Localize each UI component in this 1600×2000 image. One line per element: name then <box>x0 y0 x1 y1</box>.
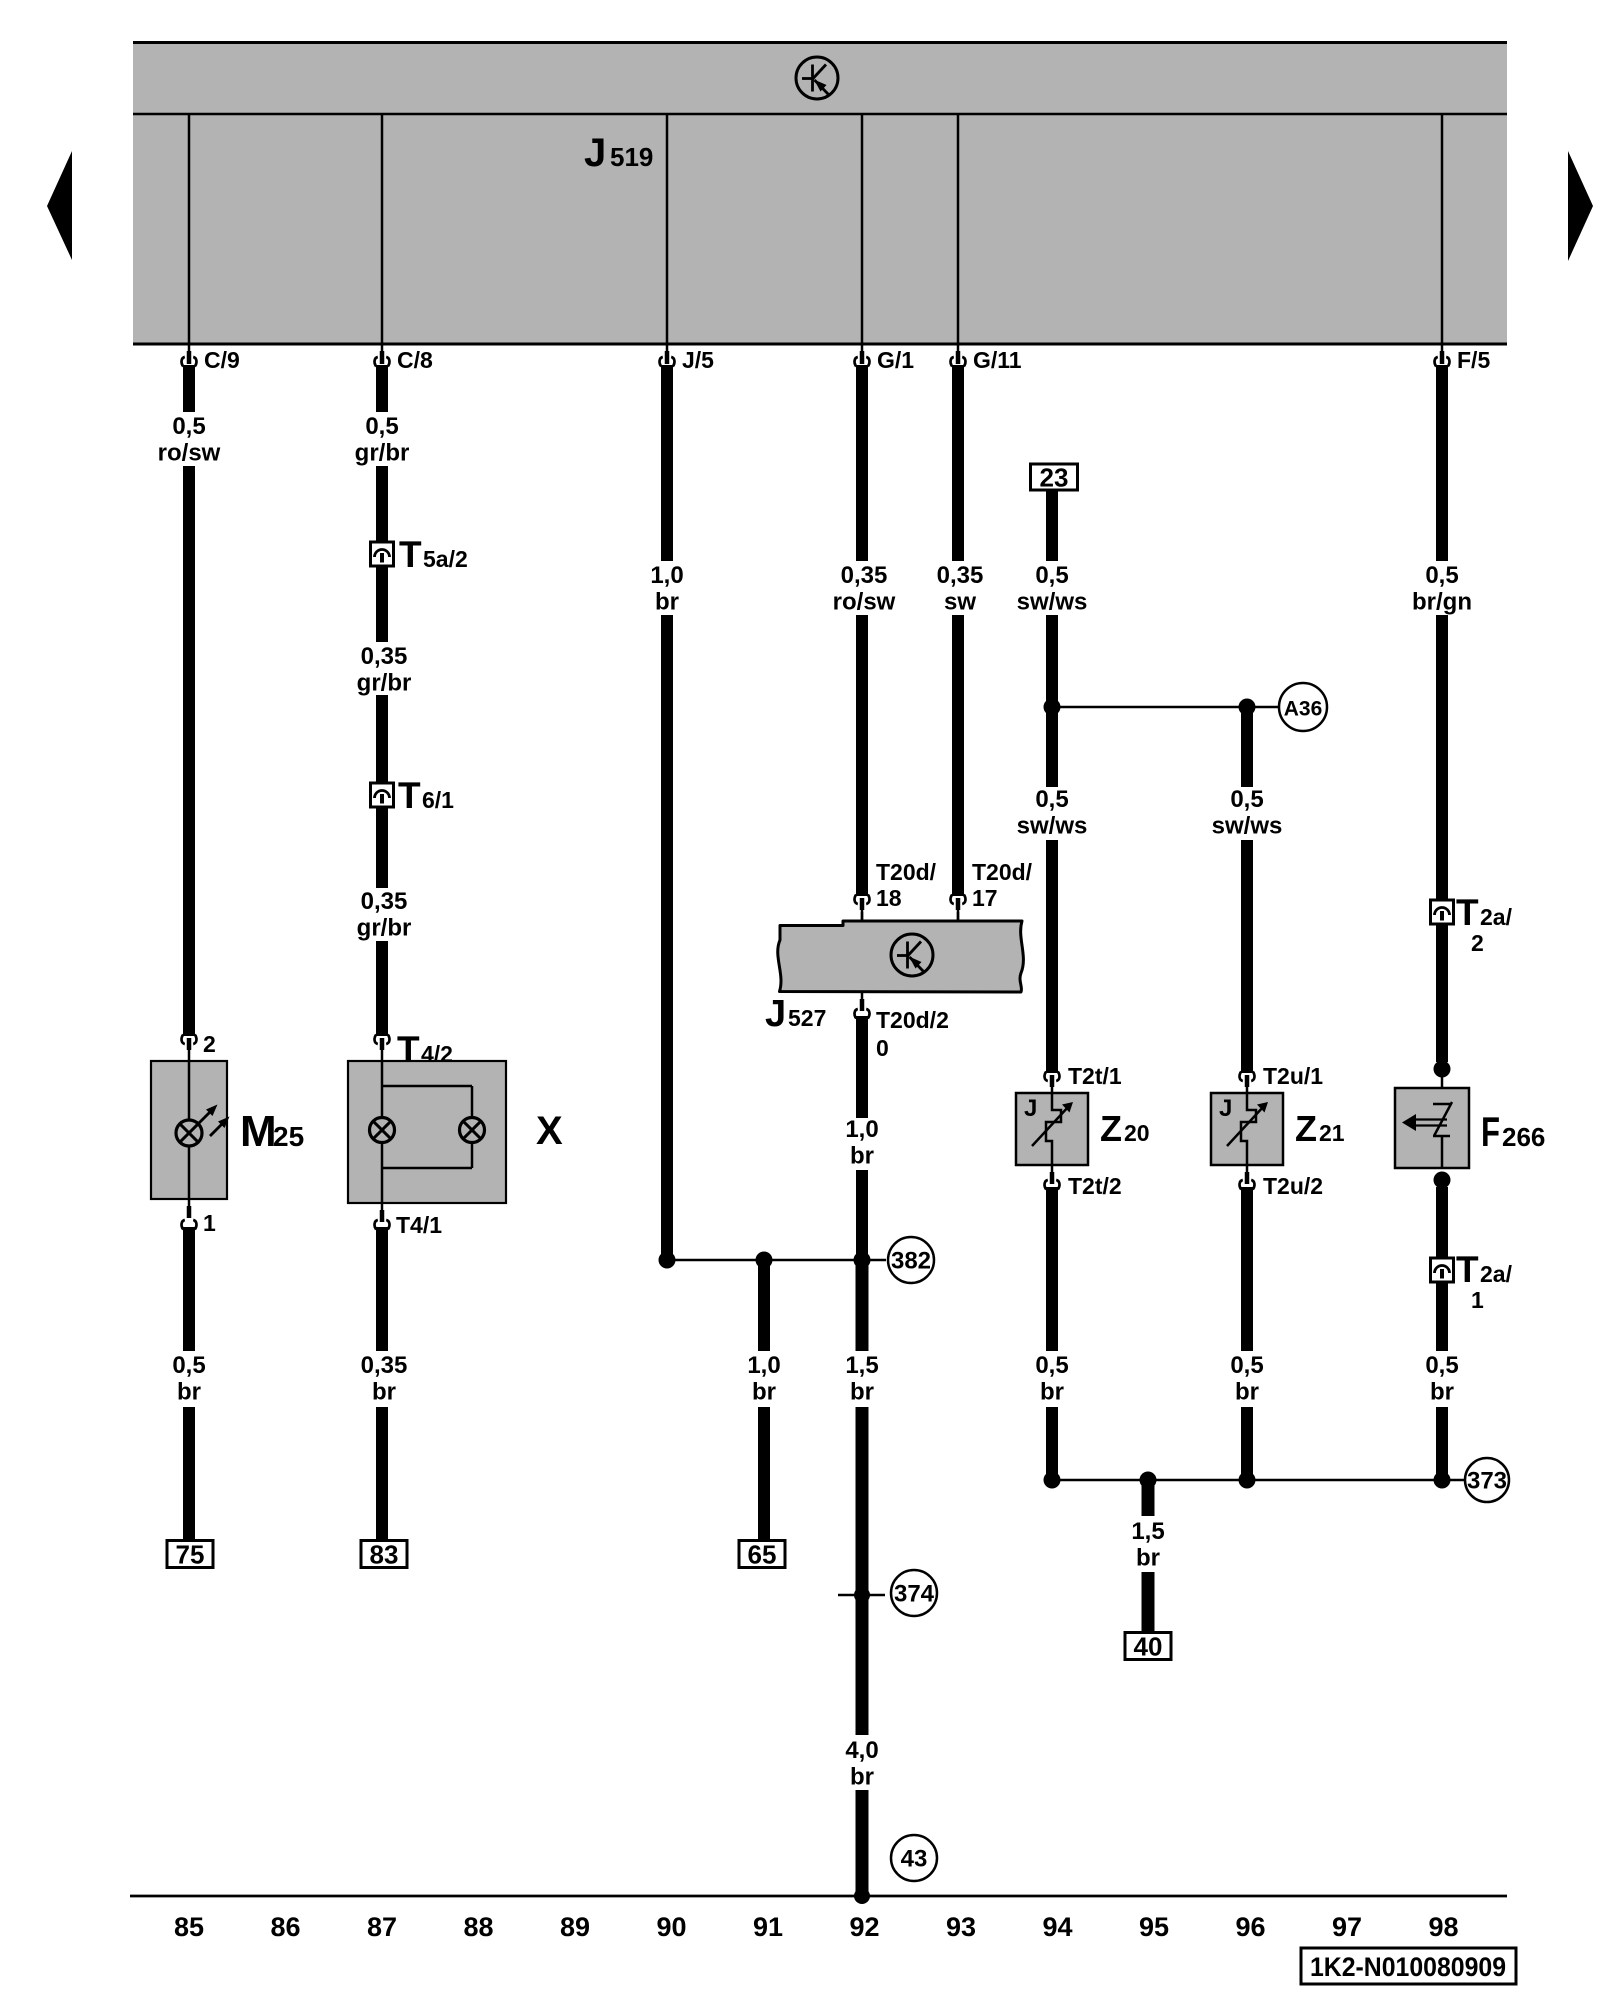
svg-text:89: 89 <box>560 1912 590 1942</box>
svg-text:gr/br: gr/br <box>357 670 412 697</box>
svg-text:92: 92 <box>849 1912 879 1942</box>
svg-text:T4/1: T4/1 <box>396 1212 442 1238</box>
svg-text:T2t/1: T2t/1 <box>1068 1063 1122 1089</box>
svg-text:br: br <box>850 1764 874 1791</box>
svg-text:ro/sw: ro/sw <box>833 589 896 616</box>
svg-text:F: F <box>1481 1108 1500 1155</box>
svg-text:1,0: 1,0 <box>845 1116 878 1143</box>
svg-text:C/8: C/8 <box>397 347 433 373</box>
svg-text:75: 75 <box>176 1540 205 1570</box>
svg-text:527: 527 <box>788 1005 826 1031</box>
svg-text:6/1: 6/1 <box>422 787 454 813</box>
svg-text:0,5: 0,5 <box>1035 562 1068 589</box>
svg-text:br/gn: br/gn <box>1412 589 1472 616</box>
svg-text:0,35: 0,35 <box>361 888 408 915</box>
svg-text:0,35: 0,35 <box>361 643 408 670</box>
svg-text:95: 95 <box>1139 1912 1169 1942</box>
svg-text:65: 65 <box>748 1540 777 1570</box>
svg-text:0,5: 0,5 <box>365 413 398 440</box>
svg-text:br: br <box>752 1379 776 1406</box>
svg-text:sw/ws: sw/ws <box>1017 589 1088 616</box>
svg-text:J/5: J/5 <box>682 347 714 373</box>
svg-text:ro/sw: ro/sw <box>158 440 221 467</box>
svg-text:X: X <box>536 1109 563 1153</box>
svg-text:2: 2 <box>203 1031 216 1057</box>
svg-text:1: 1 <box>1471 1287 1484 1313</box>
svg-text:G/11: G/11 <box>973 347 1022 373</box>
svg-text:373: 373 <box>1467 1468 1507 1495</box>
svg-text:1K2-N010080909: 1K2-N010080909 <box>1310 1952 1506 1982</box>
svg-text:br: br <box>1136 1545 1160 1572</box>
svg-text:T2t/2: T2t/2 <box>1068 1173 1122 1199</box>
svg-text:T: T <box>1456 1249 1479 1290</box>
svg-text:br: br <box>372 1379 396 1406</box>
svg-text:T: T <box>398 775 421 816</box>
svg-text:A36: A36 <box>1284 698 1323 721</box>
svg-text:0,5: 0,5 <box>1230 1352 1263 1379</box>
svg-text:br: br <box>850 1143 874 1170</box>
svg-text:90: 90 <box>656 1912 686 1942</box>
svg-text:T2u/1: T2u/1 <box>1263 1063 1323 1089</box>
svg-text:sw/ws: sw/ws <box>1212 813 1283 840</box>
svg-text:2a/: 2a/ <box>1480 1261 1513 1287</box>
svg-text:C/9: C/9 <box>204 347 240 373</box>
svg-text:T: T <box>399 534 422 575</box>
svg-text:93: 93 <box>946 1912 976 1942</box>
svg-text:1,0: 1,0 <box>747 1352 780 1379</box>
svg-text:374: 374 <box>894 1581 935 1608</box>
svg-text:F/5: F/5 <box>1457 347 1490 373</box>
svg-text:G/1: G/1 <box>877 347 914 373</box>
svg-text:0,5: 0,5 <box>1425 1352 1458 1379</box>
svg-text:T20d/: T20d/ <box>876 859 937 885</box>
svg-text:5a/2: 5a/2 <box>423 546 468 572</box>
svg-text:T20d/: T20d/ <box>972 859 1033 885</box>
svg-text:40: 40 <box>1134 1632 1163 1662</box>
svg-text:gr/br: gr/br <box>355 440 410 467</box>
svg-text:18: 18 <box>876 885 902 911</box>
svg-text:0,5: 0,5 <box>1035 1352 1068 1379</box>
svg-text:382: 382 <box>891 1248 931 1275</box>
svg-text:2: 2 <box>1471 930 1484 956</box>
svg-text:sw: sw <box>944 589 976 616</box>
svg-text:M: M <box>240 1107 277 1156</box>
svg-text:0,35: 0,35 <box>937 562 984 589</box>
svg-text:J: J <box>1024 1095 1037 1122</box>
svg-text:43: 43 <box>901 1846 928 1873</box>
svg-text:br: br <box>177 1379 201 1406</box>
svg-text:21: 21 <box>1319 1120 1345 1146</box>
svg-text:0,35: 0,35 <box>361 1352 408 1379</box>
svg-text:85: 85 <box>174 1912 204 1942</box>
svg-text:gr/br: gr/br <box>357 915 412 942</box>
svg-text:sw/ws: sw/ws <box>1017 813 1088 840</box>
svg-text:br: br <box>850 1379 874 1406</box>
svg-text:97: 97 <box>1332 1912 1362 1942</box>
svg-text:94: 94 <box>1042 1912 1072 1942</box>
svg-text:J: J <box>584 131 606 175</box>
svg-text:17: 17 <box>972 885 998 911</box>
svg-text:1,5: 1,5 <box>1131 1518 1164 1545</box>
svg-text:0,5: 0,5 <box>1425 562 1458 589</box>
svg-text:br: br <box>655 589 679 616</box>
svg-text:T2u/2: T2u/2 <box>1263 1173 1323 1199</box>
svg-text:0,5: 0,5 <box>172 413 205 440</box>
svg-text:J: J <box>1219 1095 1232 1122</box>
svg-text:br: br <box>1430 1379 1454 1406</box>
svg-text:25: 25 <box>273 1121 304 1152</box>
svg-text:T: T <box>1456 892 1479 933</box>
svg-text:91: 91 <box>753 1912 783 1942</box>
svg-text:0,5: 0,5 <box>172 1352 205 1379</box>
svg-text:86: 86 <box>270 1912 300 1942</box>
svg-text:0,35: 0,35 <box>841 562 888 589</box>
svg-text:23: 23 <box>1040 463 1069 493</box>
svg-text:Z: Z <box>1100 1108 1122 1149</box>
svg-text:1,0: 1,0 <box>650 562 683 589</box>
svg-text:20: 20 <box>1124 1120 1150 1146</box>
svg-text:0,5: 0,5 <box>1230 786 1263 813</box>
svg-text:J: J <box>765 993 786 1035</box>
svg-text:4,0: 4,0 <box>845 1737 878 1764</box>
svg-text:0: 0 <box>876 1035 889 1061</box>
svg-text:83: 83 <box>370 1540 399 1570</box>
svg-text:88: 88 <box>463 1912 493 1942</box>
svg-text:96: 96 <box>1235 1912 1265 1942</box>
svg-text:br: br <box>1235 1379 1259 1406</box>
svg-text:1: 1 <box>203 1210 216 1236</box>
svg-text:87: 87 <box>367 1912 397 1942</box>
svg-text:266: 266 <box>1502 1122 1545 1152</box>
svg-text:2a/: 2a/ <box>1480 904 1513 930</box>
svg-text:Z: Z <box>1295 1108 1317 1149</box>
svg-text:1,5: 1,5 <box>845 1352 878 1379</box>
svg-text:T20d/2: T20d/2 <box>876 1007 949 1033</box>
svg-text:98: 98 <box>1428 1912 1458 1942</box>
svg-text:br: br <box>1040 1379 1064 1406</box>
svg-text:0,5: 0,5 <box>1035 786 1068 813</box>
svg-text:519: 519 <box>610 142 653 172</box>
